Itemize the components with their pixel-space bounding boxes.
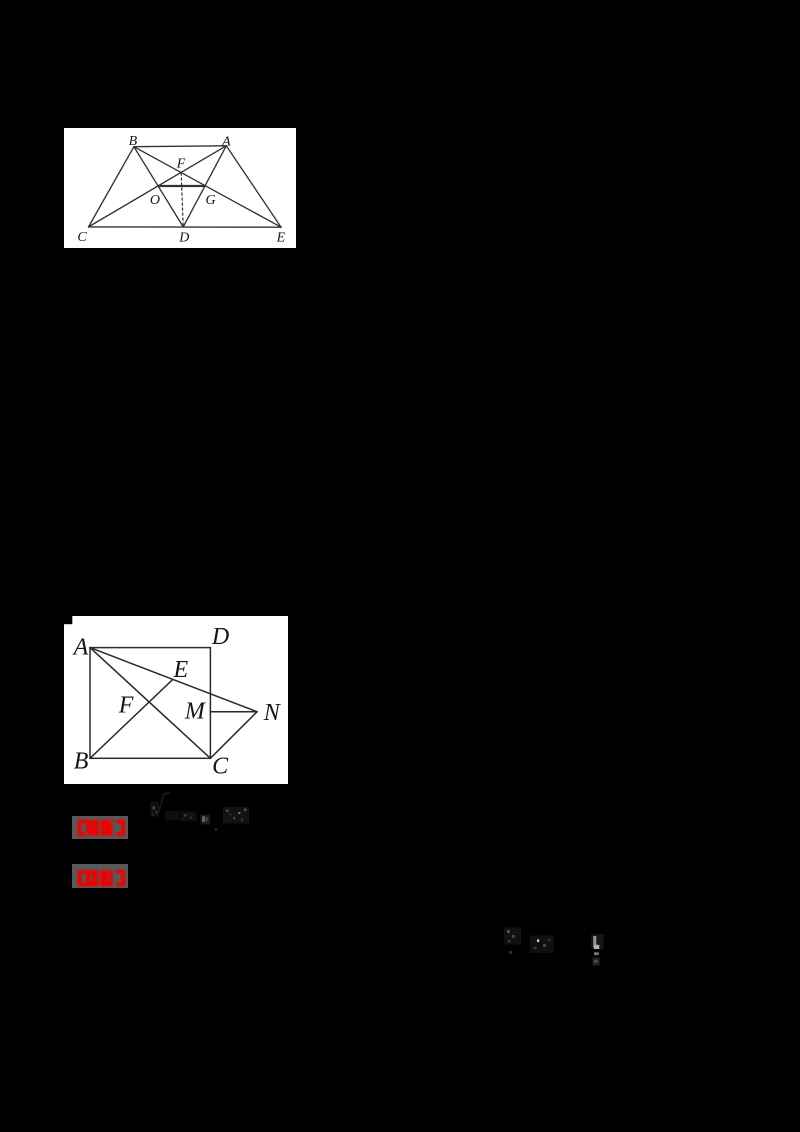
faint formula 1 (answer value, near-black on black) <box>140 785 260 847</box>
svg-text:A: A <box>72 634 89 660</box>
wire OG thick segment <box>158 184 204 186</box>
wire AD <box>183 145 226 226</box>
wire BE diagonal <box>133 146 280 226</box>
svg-text:E: E <box>172 657 188 683</box>
low dot <box>509 951 512 954</box>
scan notch top-left <box>64 616 72 624</box>
wire BA top edge <box>133 144 225 147</box>
right cluster blob <box>223 807 249 824</box>
svg-text:C: C <box>77 229 87 244</box>
letter speck cluster <box>150 802 159 817</box>
wire AC diagonal <box>90 647 210 758</box>
wire CA diagonal <box>88 145 226 226</box>
svg-text:D: D <box>211 624 229 650</box>
left speck cluster <box>504 928 521 945</box>
fraction bar <box>594 952 599 955</box>
highlight box answer <box>72 816 128 839</box>
svg-text:B: B <box>74 748 89 774</box>
svg-text:F: F <box>175 156 185 171</box>
wire CE bottom edge <box>88 225 281 227</box>
wire CB left edge <box>88 146 133 226</box>
svg-text:E: E <box>275 230 285 245</box>
svg-text:B: B <box>128 133 137 148</box>
mid speck cluster <box>530 936 554 954</box>
figure panel 2 (square ABCD with N) <box>64 616 288 784</box>
wire FD dashed <box>181 172 183 226</box>
wire CN <box>210 711 257 758</box>
wire BE <box>90 679 173 758</box>
svg-text:M: M <box>184 698 207 724</box>
red tag explain <box>72 864 128 888</box>
faint formula 2 (tan value with fraction) <box>485 915 610 985</box>
red tag answer <box>72 816 128 839</box>
svg-text:A: A <box>221 134 231 149</box>
svg-text:D: D <box>178 230 189 245</box>
wire BD <box>133 146 182 226</box>
svg-text:N: N <box>263 700 282 726</box>
low dot <box>215 828 218 831</box>
wire AN <box>90 647 257 711</box>
wire MN <box>210 710 257 712</box>
svg-text:G: G <box>205 192 215 207</box>
radical stroke <box>159 792 171 813</box>
fraction numeral bright <box>593 936 596 948</box>
figure panel 1 (trapezoid ABCDE) <box>64 128 296 249</box>
equals blob <box>165 811 179 820</box>
bright u glyph <box>200 815 210 825</box>
fraction dark plate <box>591 934 604 949</box>
mid glyph blob <box>181 812 197 822</box>
svg-text:O: O <box>149 192 159 207</box>
highlight box explain <box>72 864 128 888</box>
svg-text:F: F <box>118 692 134 718</box>
wire square ABCD <box>90 647 210 758</box>
svg-text:C: C <box>212 753 229 779</box>
denominator marks <box>593 958 600 966</box>
wire AE right edge <box>226 145 281 226</box>
